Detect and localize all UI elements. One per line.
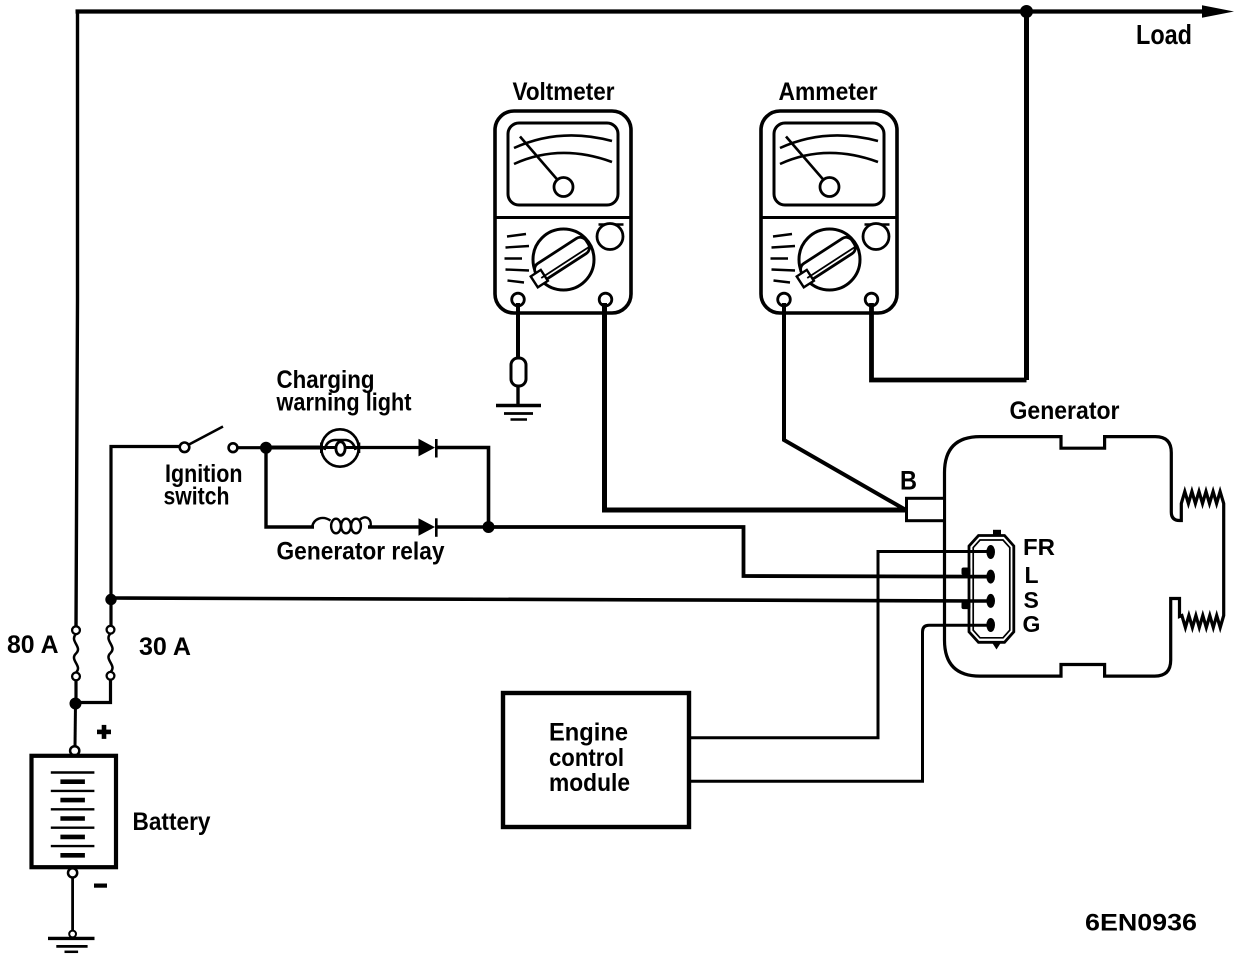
wire stub into pin S	[969, 599, 988, 603]
wire junction to battery + terminal	[74, 704, 78, 748]
wire D2 to node	[437, 525, 489, 529]
wire stub into pin G	[969, 624, 988, 627]
fuse F1 80 A	[72, 626, 80, 680]
node junction S-line above 30A fuse	[105, 594, 116, 605]
pin L	[986, 570, 995, 584]
svg-text:switch: switch	[164, 483, 230, 511]
label + battery positive	[97, 725, 111, 739]
wire switch to junction	[238, 446, 267, 449]
label Engine control module	[549, 719, 630, 798]
label - battery negative	[94, 884, 107, 888]
wire junction to warning lamp	[266, 446, 322, 450]
wire ECM to generator FR terminal	[689, 552, 987, 738]
wire probe to ground	[516, 386, 519, 405]
wire stub into pin L	[969, 575, 988, 579]
pin FR	[986, 545, 995, 559]
svg-text:Generator: Generator	[1010, 397, 1120, 425]
svg-text:FR: FR	[1023, 534, 1055, 560]
wire ECM to generator G terminal	[689, 625, 987, 781]
wire relay output to generator L terminal	[489, 527, 988, 577]
wire S line: 30A junction to generator S terminal	[111, 598, 987, 601]
wire stub into pin FR	[969, 550, 988, 553]
wire voltmeter negative lead	[516, 303, 520, 359]
node relay output junction	[483, 521, 495, 533]
fuse F2 30 A	[107, 626, 115, 680]
probe tip fuse (voltmeter ground probe)	[511, 358, 526, 386]
svg-text:Load: Load	[1136, 19, 1192, 50]
svg-text:Engine: Engine	[549, 719, 628, 747]
ammeter M2	[761, 111, 897, 313]
wire 30A fuse down to battery junction	[80, 680, 111, 703]
wire right vertical from top junction down to ammeter branch	[1024, 12, 1029, 381]
engine control module ECM box	[503, 693, 689, 827]
svg-text:Generator relay: Generator relay	[277, 538, 445, 566]
svg-text:module: module	[549, 769, 630, 797]
wire ammeter left lead diagonal to generator B	[784, 303, 905, 510]
wire battery negative to ground	[71, 878, 74, 932]
wire left vertical from top bus down to 80A fuse	[76, 10, 78, 628]
wire top bus to load	[76, 9, 1209, 13]
svg-text:Battery: Battery	[133, 808, 211, 836]
pin G	[986, 618, 995, 632]
svg-text:80 A: 80 A	[7, 631, 59, 659]
generator relay coil K1	[312, 517, 371, 533]
terminal B (generator output stud)	[907, 498, 945, 520]
wire ammeter right lead to load bus	[872, 303, 1027, 380]
wire D1 to relay output node	[437, 448, 489, 525]
ground (voltmeter)	[496, 406, 541, 420]
svg-text:6EN0936: 6EN0936	[1085, 910, 1197, 937]
connector J1 (FR/L/S/G)	[962, 530, 1014, 650]
wire junction down to relay coil	[266, 448, 314, 527]
svg-text:S: S	[1024, 587, 1039, 613]
battery BT1	[32, 746, 117, 877]
ground (battery)	[48, 931, 95, 952]
svg-text:G: G	[1023, 611, 1041, 637]
node junction above battery	[70, 698, 82, 710]
wire voltmeter positive lead to generator B	[605, 303, 907, 510]
svg-text:B: B	[900, 466, 917, 496]
wire 80A fuse to battery junction	[74, 680, 77, 703]
wire coil to diode D2	[368, 525, 419, 528]
ignition switch SW1	[180, 427, 238, 453]
node junction top (ammeter branch joins load bus)	[1020, 5, 1033, 18]
load arrow	[1202, 5, 1234, 18]
svg-text:30 A: 30 A	[139, 633, 191, 661]
svg-text:warning light: warning light	[276, 389, 412, 417]
svg-text:control: control	[549, 744, 624, 772]
voltmeter M1	[495, 111, 631, 313]
diode D2	[419, 518, 437, 537]
svg-text:L: L	[1025, 562, 1039, 588]
diode D1	[419, 439, 437, 458]
node junction after ignition switch	[260, 442, 272, 454]
charging warning light lamp L1	[321, 429, 359, 466]
generator G1 body	[945, 437, 1224, 676]
wire lamp to diode D1	[359, 446, 419, 449]
wire ignition feed from 30A junction	[111, 447, 180, 628]
label Charging warning light	[276, 366, 412, 417]
label Ignition switch	[164, 460, 243, 511]
svg-text:Voltmeter: Voltmeter	[513, 78, 615, 106]
svg-text:Ammeter: Ammeter	[779, 78, 878, 106]
pin S	[986, 594, 995, 608]
